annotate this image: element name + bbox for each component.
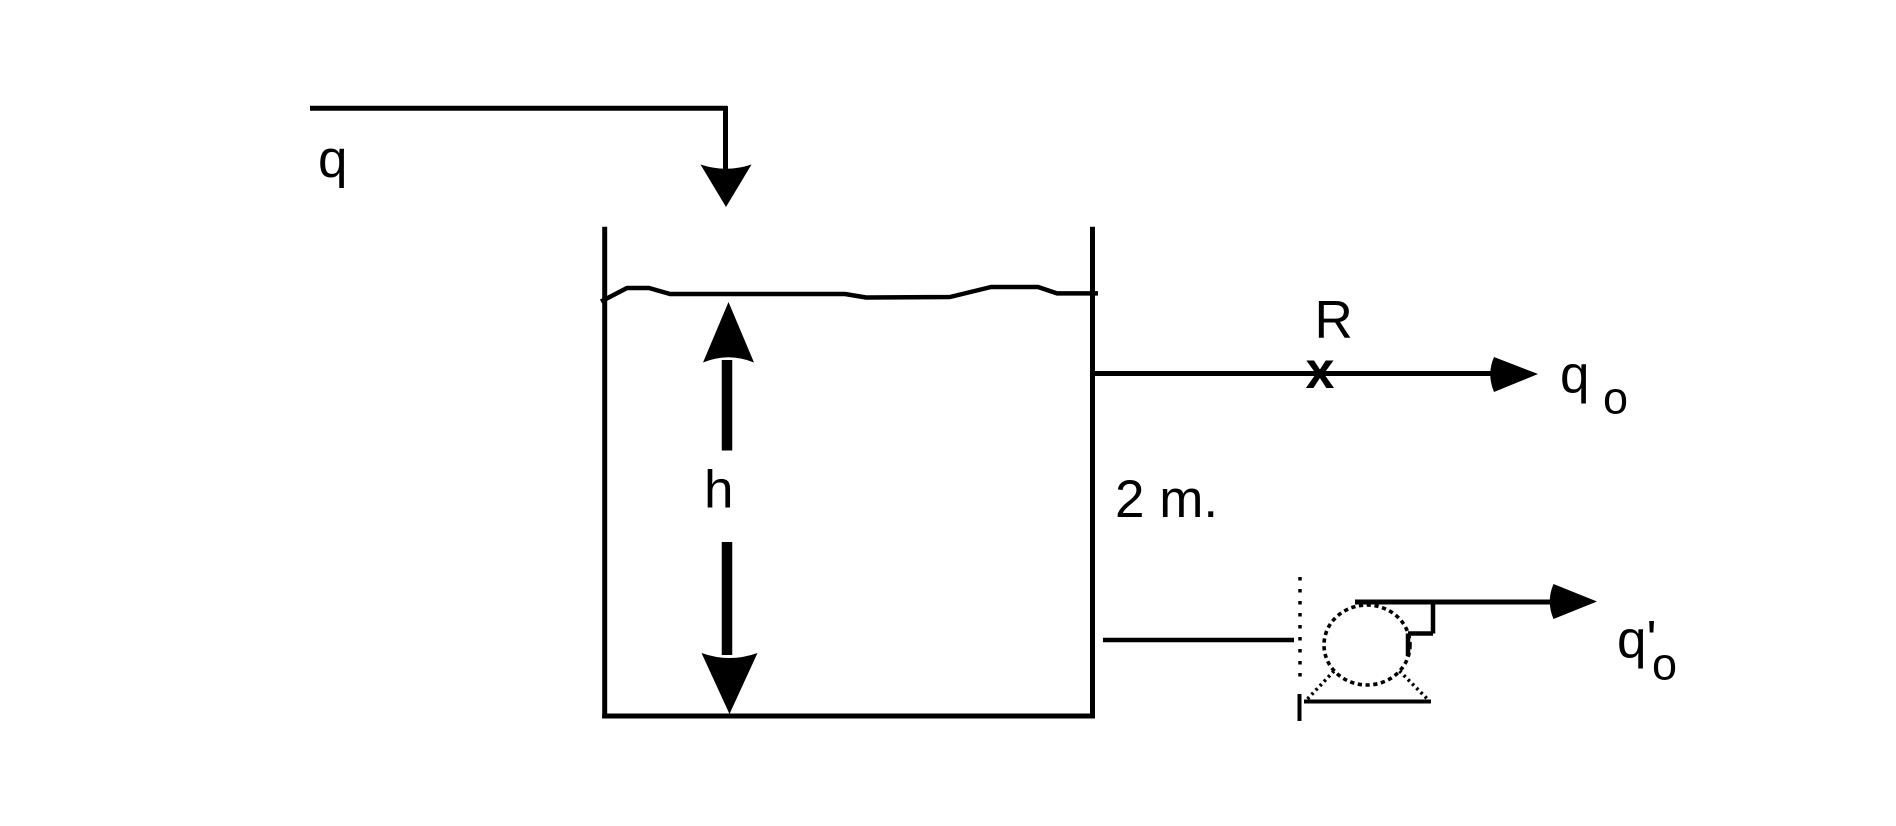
lower outlet pipe line from tank <box>1103 638 1294 643</box>
svg-text:o: o <box>1603 373 1628 424</box>
pump outlet step vertical <box>1406 634 1411 657</box>
outflow pipe line (upper) <box>1095 371 1500 376</box>
pump base left tick <box>1298 694 1302 721</box>
h dimension arrow shaft upper <box>722 360 733 451</box>
pump top casing line + outlet line <box>1355 600 1557 605</box>
pump discharge arrowhead <box>1550 584 1597 619</box>
h arrowhead up <box>703 302 754 363</box>
svg-text:q': q' <box>1617 611 1657 670</box>
pump outlet step horizontal <box>1408 631 1433 636</box>
wire inflow vertical drop <box>723 106 728 170</box>
pump support left leg <box>1307 671 1335 700</box>
svg-text:q: q <box>1560 346 1589 405</box>
pump body circle <box>1324 605 1410 685</box>
pump base line <box>1304 700 1431 704</box>
h arrowhead down <box>702 653 758 714</box>
dotted suction line <box>1298 577 1302 680</box>
svg-text:x: x <box>1306 342 1335 400</box>
tank bottom <box>602 714 1095 719</box>
svg-text:o: o <box>1652 639 1677 690</box>
tank right wall <box>1090 227 1095 719</box>
wire inflow horizontal line <box>310 106 727 111</box>
tank left wall <box>602 227 607 719</box>
pump support right leg <box>1400 671 1429 700</box>
inflow arrowhead (down) <box>701 165 752 208</box>
pump outlet right vertical <box>1431 602 1436 634</box>
water surface wavy line <box>601 287 1098 302</box>
svg-text:2 m.: 2 m. <box>1115 470 1218 529</box>
h dimension arrow shaft lower <box>722 542 733 655</box>
svg-text:R: R <box>1315 291 1353 350</box>
outflow arrowhead (right) <box>1490 357 1538 392</box>
svg-text:q: q <box>318 130 347 189</box>
svg-text:h: h <box>704 461 733 520</box>
